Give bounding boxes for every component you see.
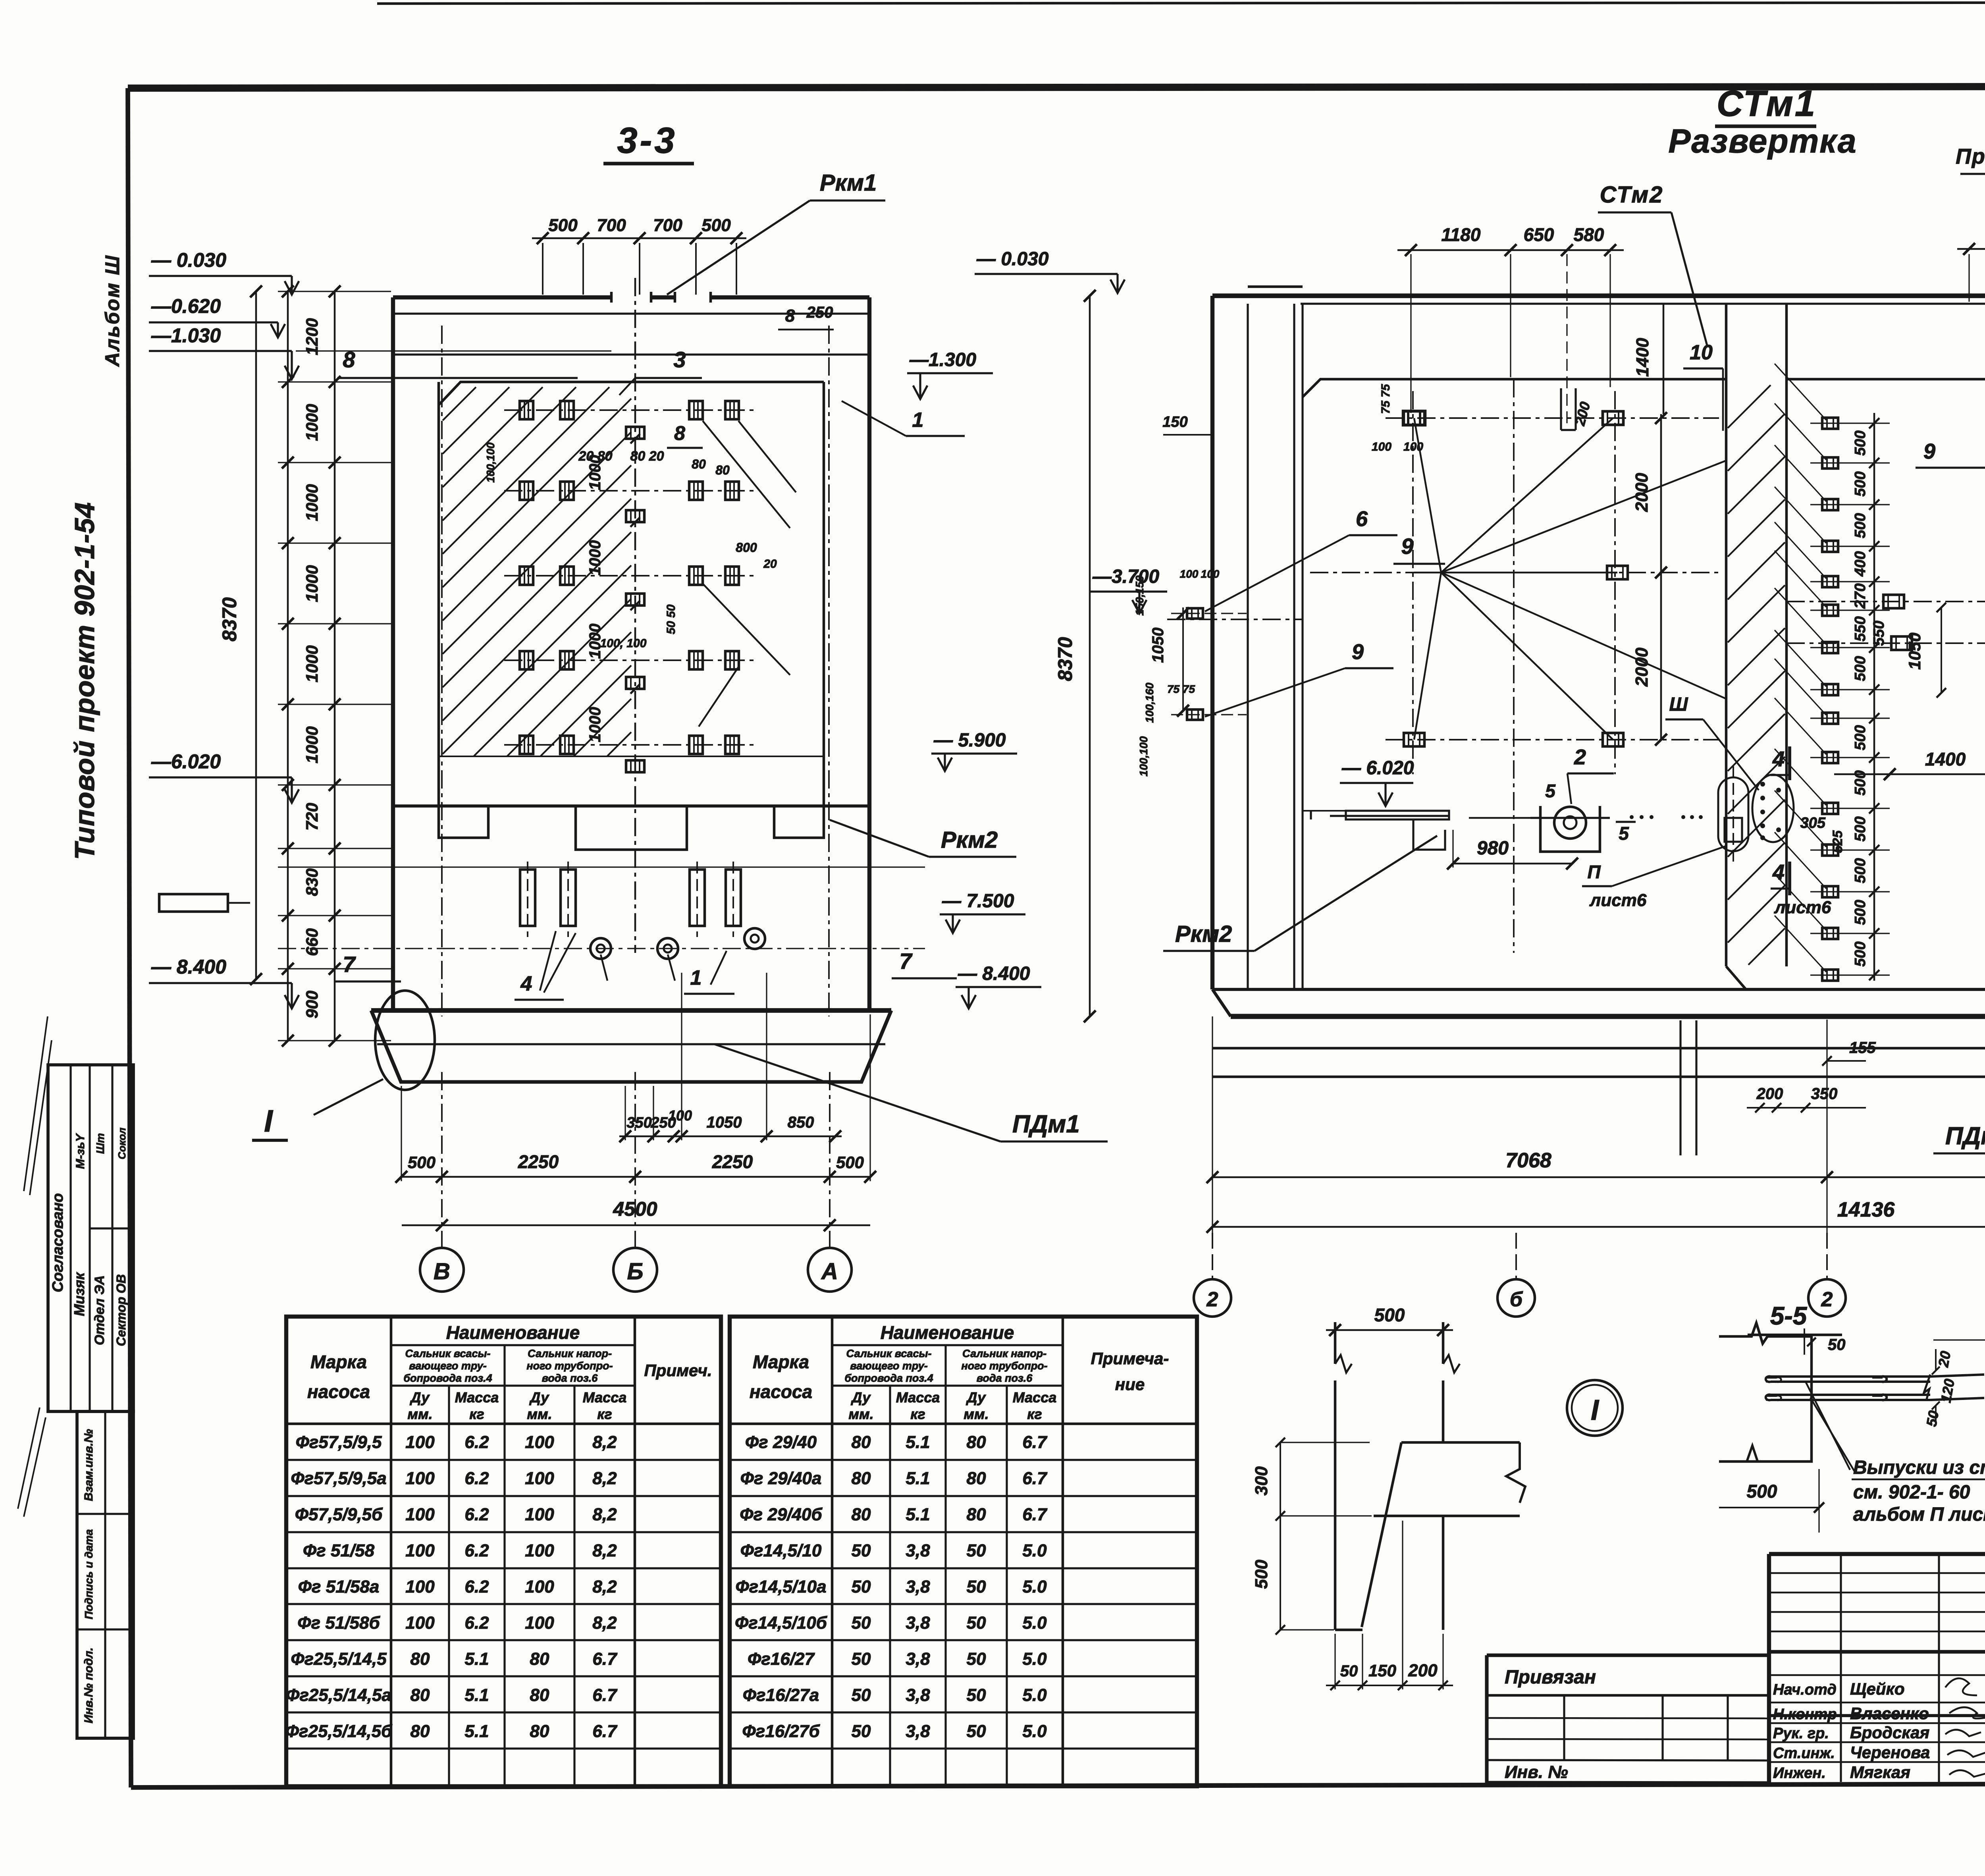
svg-text:660: 660 <box>303 928 321 956</box>
svg-text:5.0: 5.0 <box>1022 1649 1047 1669</box>
svg-text:1400: 1400 <box>1925 749 1966 769</box>
svg-text:Рук. гр.: Рук. гр. <box>1773 1725 1829 1742</box>
svg-text:—3.700: —3.700 <box>1092 566 1159 587</box>
svg-text:Б: Б <box>627 1259 643 1284</box>
svg-text:100: 100 <box>405 1433 435 1452</box>
privyazan block <box>1487 1655 1769 1783</box>
svg-text:вающего тру-: вающего тру- <box>850 1360 927 1372</box>
svg-text:8370: 8370 <box>1054 637 1076 681</box>
svg-text:100: 100 <box>405 1613 435 1633</box>
svg-text:150: 150 <box>1162 414 1187 430</box>
svg-text:75 75: 75 75 <box>1379 384 1392 414</box>
svg-text:6.2: 6.2 <box>464 1613 489 1633</box>
svg-text:50: 50 <box>852 1541 871 1560</box>
svg-text:Фг25,5/14,5а: Фг25,5/14,5а <box>286 1685 391 1705</box>
svg-text:— 8.400: — 8.400 <box>958 963 1030 984</box>
svg-text:Фг 29/40а: Фг 29/40а <box>740 1469 822 1488</box>
svg-text:4: 4 <box>1772 747 1785 771</box>
svg-text:6.7: 6.7 <box>1022 1505 1048 1524</box>
section 3-3 interior hatching <box>443 387 631 756</box>
svg-text:3-3: 3-3 <box>617 120 677 161</box>
svg-text:3,8: 3,8 <box>906 1577 930 1596</box>
svg-text:50: 50 <box>967 1722 986 1741</box>
svg-text:80: 80 <box>715 463 730 477</box>
svg-text:см. 902-1- 60: см. 902-1- 60 <box>1853 1482 1970 1503</box>
svg-text:Фг25,5/14,5: Фг25,5/14,5 <box>291 1649 387 1669</box>
svg-text:200: 200 <box>1408 1661 1438 1680</box>
svg-text:850: 850 <box>788 1114 814 1131</box>
svg-text:100: 100 <box>525 1613 554 1633</box>
svg-text:Сальник напор-: Сальник напор- <box>962 1348 1046 1359</box>
razvertka right half dimension chains <box>1834 297 1985 853</box>
svg-text:20: 20 <box>1935 1350 1954 1369</box>
svg-text:5.0: 5.0 <box>1022 1722 1047 1741</box>
section 3-3 top dimension chain 500-700-700-500 <box>532 216 746 295</box>
svg-text:550: 550 <box>1871 621 1887 646</box>
svg-text:50: 50 <box>1340 1662 1358 1680</box>
svg-text:мм.: мм. <box>407 1406 432 1422</box>
razvertka right half labels <box>1916 372 1985 850</box>
razvertka top labels <box>1956 145 1985 514</box>
svg-text:700: 700 <box>653 216 682 235</box>
svg-text:50: 50 <box>852 1613 871 1633</box>
svg-text:5.0: 5.0 <box>1022 1541 1047 1560</box>
svg-text:100: 100 <box>405 1505 435 1524</box>
razvertka axis circles <box>1194 1233 1985 1317</box>
svg-text:100, 100: 100, 100 <box>600 637 647 650</box>
svg-text:5.1: 5.1 <box>906 1469 930 1488</box>
svg-text:мм.: мм. <box>964 1406 989 1422</box>
svg-text:3: 3 <box>673 347 686 372</box>
svg-text:Ркм1: Ркм1 <box>820 170 877 196</box>
svg-text:50: 50 <box>967 1541 986 1560</box>
section 3-3 right level marks <box>907 349 1041 1008</box>
svg-text:Инв.№ подл.: Инв.№ подл. <box>82 1647 95 1723</box>
svg-text:350: 350 <box>626 1114 651 1131</box>
left margin inventory boxes <box>77 1411 133 1738</box>
svg-text:500: 500 <box>701 216 731 235</box>
svg-text:—0.620: —0.620 <box>151 295 221 317</box>
svg-text:Альбом Ш: Альбом Ш <box>101 255 123 367</box>
svg-text:Наименование: Наименование <box>881 1322 1014 1343</box>
svg-text:1050: 1050 <box>1905 632 1924 669</box>
svg-text:2250: 2250 <box>518 1151 559 1172</box>
svg-text:500: 500 <box>1252 1560 1271 1589</box>
svg-text:5: 5 <box>1545 781 1556 801</box>
svg-text:ПДм1: ПДм1 <box>1945 1122 1985 1150</box>
svg-text:100: 100 <box>405 1577 435 1596</box>
svg-text:6.2: 6.2 <box>464 1505 489 1524</box>
svg-text:4: 4 <box>1772 860 1785 884</box>
razvertka structure outline <box>1212 287 1985 1016</box>
pump table left <box>285 1317 721 1786</box>
svg-text:80: 80 <box>852 1469 871 1488</box>
svg-text:8,2: 8,2 <box>592 1577 617 1596</box>
svg-text:Фг57,5/9,5а: Фг57,5/9,5а <box>291 1469 386 1488</box>
svg-text:Отдел ЭА: Отдел ЭА <box>92 1275 107 1345</box>
svg-text:80: 80 <box>410 1649 430 1669</box>
svg-text:830: 830 <box>303 868 321 896</box>
svg-text:Ркм2: Ркм2 <box>1175 921 1232 947</box>
svg-text:кг: кг <box>910 1406 925 1422</box>
svg-text:8: 8 <box>674 422 685 444</box>
svg-text:720: 720 <box>303 803 321 831</box>
svg-text:2: 2 <box>1206 1288 1218 1311</box>
svg-text:9: 9 <box>1401 534 1413 559</box>
svg-text:350: 350 <box>1811 1085 1838 1103</box>
section 3-3 title <box>603 120 694 164</box>
svg-text:насоса: насоса <box>750 1381 812 1402</box>
svg-text:— 7.500: — 7.500 <box>942 891 1014 912</box>
svg-text:500: 500 <box>1852 816 1869 841</box>
svg-text:500: 500 <box>836 1153 864 1172</box>
svg-text:3,8: 3,8 <box>906 1685 930 1705</box>
svg-text:1200: 1200 <box>303 318 321 355</box>
svg-text:—1.300: —1.300 <box>909 349 976 370</box>
svg-text:1000: 1000 <box>303 565 321 602</box>
svg-text:5.0: 5.0 <box>1022 1613 1047 1633</box>
svg-text:— 6.020: — 6.020 <box>1341 758 1414 779</box>
svg-text:100: 100 <box>525 1541 554 1560</box>
svg-text:Марка: Марка <box>753 1352 809 1372</box>
svg-text:2000: 2000 <box>1632 648 1652 687</box>
svg-text:50: 50 <box>1828 1336 1846 1353</box>
svg-text:В: В <box>434 1259 450 1284</box>
svg-text:Фг14,5/10а: Фг14,5/10а <box>735 1577 826 1596</box>
svg-text:Наименование: Наименование <box>446 1322 580 1343</box>
svg-text:Фг 51/58а: Фг 51/58а <box>298 1577 380 1596</box>
svg-text:5.1: 5.1 <box>906 1433 930 1452</box>
section 3-3 axis circles <box>420 1072 852 1292</box>
svg-text:— 0.030: — 0.030 <box>976 249 1049 270</box>
svg-text:50: 50 <box>852 1649 871 1669</box>
svg-text:Сокол: Сокол <box>116 1128 128 1159</box>
svg-text:200: 200 <box>1756 1085 1783 1103</box>
svg-text:5-5: 5-5 <box>1770 1301 1808 1330</box>
svg-text:20: 20 <box>763 557 777 571</box>
razvertka left chamber star bracing <box>1310 379 1726 953</box>
svg-text:8,2: 8,2 <box>592 1505 617 1524</box>
svg-text:2000: 2000 <box>1632 473 1652 512</box>
svg-text:Масса: Масса <box>1013 1389 1057 1406</box>
section 3-3 detail I ellipse <box>252 991 435 1140</box>
svg-text:Фг16/27а: Фг16/27а <box>743 1685 819 1705</box>
svg-text:Типовой проект 902-1-54: Типовой проект 902-1-54 <box>69 502 100 860</box>
svg-text:2250: 2250 <box>712 1151 753 1172</box>
svg-text:80: 80 <box>967 1433 986 1452</box>
svg-text:50: 50 <box>967 1685 986 1705</box>
svg-text:I: I <box>264 1103 273 1138</box>
svg-text:Черенова: Черенова <box>1850 1743 1930 1762</box>
svg-text:Ш: Ш <box>1669 694 1688 715</box>
detail I bubble <box>1567 1380 1623 1436</box>
svg-text:Власенко: Власенко <box>1850 1704 1929 1723</box>
razvertka centre rebar column with 500 labels <box>1775 364 1890 981</box>
svg-text:100,100: 100,100 <box>1137 736 1150 777</box>
svg-text:1000: 1000 <box>303 404 321 441</box>
svg-text:Сектор ОВ: Сектор ОВ <box>114 1274 128 1346</box>
svg-text:50 50: 50 50 <box>665 604 678 634</box>
svg-text:насоса: насоса <box>307 1381 370 1402</box>
svg-text:4: 4 <box>520 972 532 995</box>
svg-text:980: 980 <box>1477 838 1509 859</box>
svg-text:Масса: Масса <box>583 1389 627 1406</box>
svg-text:ного трубопро-: ного трубопро- <box>961 1360 1047 1372</box>
svg-text:900: 900 <box>303 991 321 1018</box>
svg-text:80: 80 <box>967 1469 986 1488</box>
svg-text:Проем в набетонке: Проем в набетонке <box>1956 145 1985 168</box>
svg-text:150,150: 150,150 <box>1133 575 1146 616</box>
svg-text:вающего тру-: вающего тру- <box>409 1360 486 1372</box>
svg-text:3,8: 3,8 <box>906 1541 930 1560</box>
svg-text:Привязан: Привязан <box>1505 1667 1596 1688</box>
svg-text:8,2: 8,2 <box>592 1433 617 1452</box>
razvertka left chamber dimensions <box>1372 182 1723 746</box>
svg-text:50: 50 <box>1923 1409 1942 1428</box>
svg-text:СТм1: СТм1 <box>1717 83 1817 124</box>
svg-text:500: 500 <box>1852 725 1869 750</box>
margin scribbles <box>18 1016 52 1517</box>
svg-text:50: 50 <box>852 1685 871 1705</box>
svg-text:1050: 1050 <box>1149 628 1167 663</box>
svg-text:100: 100 <box>1180 568 1199 580</box>
svg-text:Сальник напор-: Сальник напор- <box>528 1348 612 1359</box>
svg-text:6.7: 6.7 <box>592 1722 618 1741</box>
pump table right <box>730 1317 1197 1786</box>
svg-text:6.2: 6.2 <box>464 1577 489 1596</box>
svg-text:— 0.030: — 0.030 <box>151 249 226 271</box>
svg-text:250: 250 <box>806 304 833 321</box>
svg-text:Взам.инв.№: Взам.инв.№ <box>82 1429 95 1501</box>
svg-text:80: 80 <box>852 1505 871 1524</box>
svg-text:2: 2 <box>1821 1288 1833 1311</box>
svg-text:Сальник всасы-: Сальник всасы- <box>405 1348 490 1359</box>
svg-text:Фг14,5/10: Фг14,5/10 <box>740 1541 822 1560</box>
svg-text:8: 8 <box>785 306 795 326</box>
svg-text:Подпись и дата: Подпись и дата <box>83 1529 95 1620</box>
svg-text:800: 800 <box>736 540 757 555</box>
razvertka right half centre lines and ties <box>1786 357 1985 973</box>
razvertka top right dimension chains <box>1957 223 1985 516</box>
svg-text:Фг 29/40б: Фг 29/40б <box>740 1505 823 1524</box>
svg-text:Фг 29/40: Фг 29/40 <box>745 1433 817 1452</box>
razvertka right half small annotations <box>1871 486 1985 992</box>
svg-text:ние: ние <box>1115 1375 1145 1394</box>
razvertka equipment floor <box>1163 694 1831 951</box>
svg-text:5: 5 <box>1619 823 1629 844</box>
svg-text:Нач.отд: Нач.отд <box>1773 1681 1837 1698</box>
svg-text:75 75: 75 75 <box>1167 683 1195 695</box>
svg-text:лист6: лист6 <box>1589 891 1647 910</box>
svg-text:50: 50 <box>852 1577 871 1596</box>
svg-text:500: 500 <box>1852 900 1869 925</box>
svg-text:лист6: лист6 <box>1774 898 1831 917</box>
svg-text:500: 500 <box>548 216 578 235</box>
svg-text:Фг16/27б: Фг16/27б <box>742 1722 820 1741</box>
svg-text:Ду: Ду <box>851 1389 871 1406</box>
svg-text:6.7: 6.7 <box>592 1649 618 1669</box>
section 3-3 component labels <box>335 170 1108 1141</box>
razvertka title <box>1668 83 1857 160</box>
svg-text:100: 100 <box>525 1433 554 1452</box>
svg-text:Фг57,5/9,5: Фг57,5/9,5 <box>296 1433 382 1452</box>
svg-text:6.2: 6.2 <box>464 1433 489 1452</box>
svg-text:1000: 1000 <box>303 645 321 682</box>
svg-text:100: 100 <box>525 1505 554 1524</box>
razvertka bottom dimensions <box>1206 1016 1985 1233</box>
svg-text:вода поз.6: вода поз.6 <box>542 1372 598 1384</box>
svg-text:5.1: 5.1 <box>464 1685 489 1705</box>
svg-text:8,2: 8,2 <box>592 1469 617 1488</box>
pdm1 slab band below razvertka <box>1212 1048 1985 1153</box>
svg-text:9: 9 <box>1352 640 1364 664</box>
svg-text:б: б <box>1510 1288 1523 1311</box>
svg-text:8,2: 8,2 <box>592 1613 617 1633</box>
section 3-3 lower pipes <box>520 862 741 937</box>
svg-text:I: I <box>1591 1394 1600 1426</box>
svg-text:10: 10 <box>1690 341 1713 364</box>
section 3-3 bottom dimension chains <box>395 973 876 1231</box>
svg-text:1000: 1000 <box>303 484 321 521</box>
svg-text:80: 80 <box>530 1649 549 1669</box>
svg-text:ного трубопро-: ного трубопро- <box>526 1360 613 1372</box>
svg-text:80: 80 <box>410 1722 430 1741</box>
svg-text:Фг16/27: Фг16/27 <box>748 1649 815 1669</box>
svg-text:100: 100 <box>1201 568 1220 580</box>
svg-text:80: 80 <box>692 457 706 471</box>
svg-text:1: 1 <box>690 966 702 989</box>
svg-text:305: 305 <box>1800 815 1826 831</box>
svg-text:270: 270 <box>1852 583 1869 609</box>
svg-text:100: 100 <box>525 1577 554 1596</box>
svg-text:мм.: мм. <box>848 1406 873 1422</box>
title block main rows <box>1769 1648 1985 1785</box>
svg-text:650: 650 <box>1524 224 1554 245</box>
svg-text:Ду: Ду <box>529 1389 550 1406</box>
svg-text:3,8: 3,8 <box>906 1722 930 1741</box>
svg-text:Инжен.: Инжен. <box>1773 1765 1826 1782</box>
svg-text:525: 525 <box>1830 830 1845 853</box>
svg-text:100,100: 100,100 <box>484 442 497 483</box>
svg-text:М-зьY: М-зьY <box>74 1133 87 1169</box>
svg-text:5.0: 5.0 <box>1022 1685 1047 1705</box>
svg-text:Ф57,5/9,5б: Ф57,5/9,5б <box>295 1505 383 1524</box>
svg-text:Согласовано: Согласовано <box>50 1193 66 1292</box>
section 3-3 rebar ties and center lines <box>442 278 829 1016</box>
svg-text:Сальник всасы-: Сальник всасы- <box>846 1348 931 1359</box>
svg-text:Н.контр: Н.контр <box>1773 1706 1837 1723</box>
section 3-3 valve circles <box>590 928 765 959</box>
svg-text:7068: 7068 <box>1505 1149 1551 1172</box>
svg-text:Бродская: Бродская <box>1850 1723 1929 1742</box>
svg-text:50: 50 <box>852 1722 871 1741</box>
svg-text:Ду: Ду <box>410 1389 430 1406</box>
svg-text:1000: 1000 <box>303 726 321 763</box>
section 3-3 left level marks <box>149 249 299 1008</box>
svg-text:СТм2: СТм2 <box>1600 182 1664 208</box>
svg-text:Масса: Масса <box>896 1389 940 1406</box>
svg-text:1: 1 <box>912 409 924 432</box>
svg-text:Фг 51/58б: Фг 51/58б <box>297 1613 380 1633</box>
svg-text:кг: кг <box>1027 1406 1042 1422</box>
svg-text:6.2: 6.2 <box>464 1541 489 1560</box>
svg-text:100: 100 <box>405 1541 435 1560</box>
svg-text:80: 80 <box>530 1722 549 1741</box>
svg-text:14136: 14136 <box>1837 1198 1895 1221</box>
svg-text:ПДм1: ПДм1 <box>1012 1111 1080 1138</box>
svg-text:700: 700 <box>597 216 626 235</box>
detail I step drawing <box>1252 1305 1525 1690</box>
svg-text:2: 2 <box>1574 745 1586 769</box>
svg-text:— 8.400: — 8.400 <box>151 956 226 978</box>
svg-text:1050: 1050 <box>707 1114 742 1131</box>
svg-text:7: 7 <box>343 952 356 977</box>
svg-text:вода поз.6: вода поз.6 <box>977 1372 1033 1384</box>
svg-text:1000: 1000 <box>586 707 604 742</box>
svg-text:80: 80 <box>967 1505 986 1524</box>
razvertka centre band hatching <box>1728 385 1785 965</box>
svg-text:80: 80 <box>530 1685 549 1705</box>
svg-text:500: 500 <box>1852 430 1869 455</box>
svg-text:Инв. №: Инв. № <box>1505 1762 1568 1782</box>
svg-text:6.7: 6.7 <box>1022 1469 1048 1488</box>
svg-text:8: 8 <box>343 347 355 372</box>
svg-text:500: 500 <box>1852 858 1869 883</box>
svg-text:500: 500 <box>1852 656 1869 681</box>
svg-text:Щейко: Щейко <box>1850 1679 1904 1698</box>
svg-text:Ду: Ду <box>966 1389 987 1406</box>
section 3-3 left dimension chains <box>218 285 391 1047</box>
svg-text:5.1: 5.1 <box>464 1649 489 1669</box>
svg-text:550: 550 <box>1852 616 1869 641</box>
svg-text:Выпуски из стен: Выпуски из стен <box>1853 1457 1985 1478</box>
svg-text:—6.020: —6.020 <box>151 750 221 773</box>
svg-text:5.1: 5.1 <box>464 1722 489 1741</box>
svg-text:50: 50 <box>967 1613 986 1633</box>
svg-text:кг: кг <box>469 1406 484 1422</box>
svg-text:3,8: 3,8 <box>906 1613 930 1633</box>
svg-text:80 20: 80 20 <box>630 449 664 464</box>
svg-text:3,8: 3,8 <box>906 1649 930 1669</box>
svg-text:Шт: Шт <box>94 1133 106 1154</box>
razvertka top small ties <box>1403 243 1985 425</box>
svg-text:П: П <box>1587 862 1601 882</box>
svg-text:100: 100 <box>1403 440 1423 453</box>
svg-text:кг: кг <box>597 1406 612 1422</box>
svg-text:6.7: 6.7 <box>592 1685 618 1705</box>
svg-text:8370: 8370 <box>218 597 241 641</box>
svg-text:50: 50 <box>967 1577 986 1596</box>
svg-text:500: 500 <box>1852 471 1869 496</box>
svg-text:150: 150 <box>1368 1661 1396 1680</box>
svg-text:Мизяк: Мизяк <box>71 1272 87 1316</box>
svg-text:Марка: Марка <box>310 1352 367 1372</box>
svg-text:100: 100 <box>405 1469 435 1488</box>
svg-text:500: 500 <box>408 1153 436 1172</box>
left margin approval stamp box <box>48 1065 133 1411</box>
title block outer <box>1769 1554 1985 1784</box>
svg-text:100: 100 <box>668 1107 692 1124</box>
svg-text:500: 500 <box>1747 1481 1777 1502</box>
svg-text:6: 6 <box>1356 507 1368 531</box>
svg-text:9: 9 <box>1923 440 1935 463</box>
svg-text:Фг 51/58: Фг 51/58 <box>303 1541 375 1560</box>
svg-text:Мягкая: Мягкая <box>1850 1763 1910 1782</box>
svg-text:1000: 1000 <box>586 540 604 576</box>
svg-text:100,160: 100,160 <box>1143 683 1156 723</box>
svg-text:бопровода поз.4: бопровода поз.4 <box>844 1372 933 1384</box>
svg-text:бопровода поз.4: бопровода поз.4 <box>403 1372 492 1384</box>
